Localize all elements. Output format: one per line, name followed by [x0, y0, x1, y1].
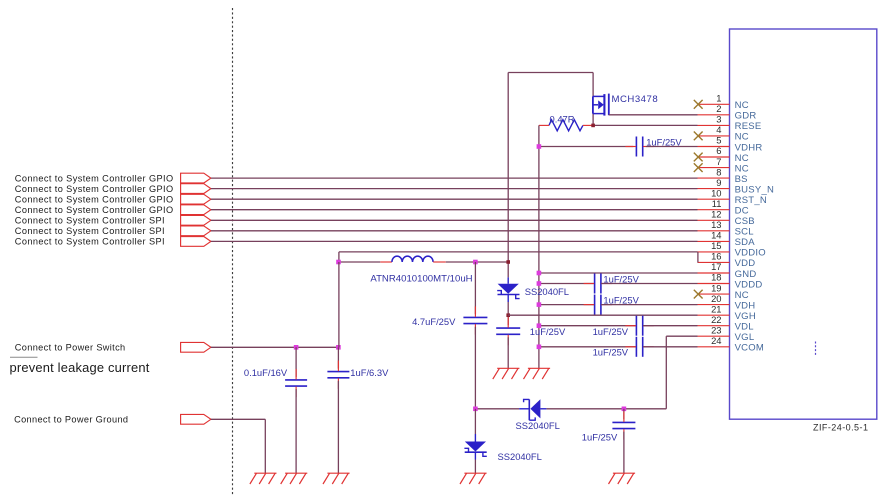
wire power ground — [211, 418, 265, 420]
wire boost node top horizontal — [508, 72, 593, 74]
wire inductor junction down to 4.7uF — [474, 262, 476, 314]
capacitor 0.1uF/16V — [285, 380, 307, 386]
svg-text:SS2040FL: SS2040FL — [498, 451, 542, 462]
junction VDL cap / rail — [537, 323, 542, 328]
svg-text:23: 23 — [711, 324, 721, 335]
wire power ground corner down — [264, 419, 266, 473]
wire bottom cap to ground — [623, 432, 625, 474]
junction 0.1uF tap — [294, 345, 299, 350]
wire VCOM rail to cap — [539, 346, 636, 348]
wire 4.7uF node down to lower diode — [474, 409, 476, 434]
pin 7 (NC) — [698, 156, 749, 175]
pin 3 (RESE) — [698, 114, 762, 133]
svg-text:VCOM: VCOM — [735, 343, 765, 354]
wire VDH rail to cap — [539, 304, 595, 306]
hidden pin marker inside connector — [815, 342, 817, 357]
capacitor 4.7uF/25V — [463, 317, 487, 323]
svg-text:9: 9 — [716, 177, 721, 188]
svg-text:24: 24 — [711, 335, 721, 346]
svg-text:21: 21 — [711, 303, 721, 314]
no-connect X pin 6 — [694, 153, 703, 162]
svg-text:19: 19 — [711, 282, 721, 293]
svg-text:4: 4 — [716, 124, 721, 135]
pin 18 (VDDD) — [698, 272, 763, 291]
svg-text:1uF/25V: 1uF/25V — [646, 136, 682, 147]
page border dashed line — [232, 8, 234, 495]
wire MOSFET source drop — [592, 73, 594, 97]
pin 24 (VCOM) — [698, 335, 765, 354]
svg-text:10: 10 — [711, 187, 721, 198]
svg-text:Connect to System Controller S: Connect to System Controller SPI — [15, 237, 165, 247]
svg-text:SCL: SCL — [735, 227, 754, 238]
pin 11 (DC) — [698, 198, 749, 217]
junction inductor / boost vertical — [506, 260, 510, 264]
svg-text:SDA: SDA — [735, 237, 756, 248]
wire VDHR from rail to cap — [539, 146, 633, 148]
pin 15 (VDDIO) — [698, 240, 766, 259]
junction VDD rail / VDDIO / power switch drop — [336, 260, 341, 265]
svg-text:1uF/25V: 1uF/25V — [582, 431, 618, 442]
svg-text:VDD: VDD — [735, 258, 756, 269]
wire GND rail to pin 17 — [539, 272, 698, 274]
svg-text:7: 7 — [716, 156, 721, 167]
svg-text:8: 8 — [716, 166, 721, 177]
svg-text:1uF/6.3V: 1uF/6.3V — [350, 367, 389, 378]
transistor Q1 MCH3478 (P-MOSFET) — [593, 94, 609, 116]
svg-text:Connect to System Controller G: Connect to System Controller GPIO — [15, 205, 174, 215]
ground (1uF/6.3V) — [323, 473, 350, 484]
wire CSB to pin 12 — [211, 219, 698, 221]
svg-text:1uF/25V: 1uF/25V — [603, 273, 639, 284]
svg-text:3: 3 — [716, 114, 721, 125]
wire VGL row down to bottom cap — [623, 409, 625, 420]
capacitor 1uF/25V (VDHR) — [636, 137, 642, 157]
wire boost diode out / VGH node — [507, 302, 509, 325]
svg-text:ATNR4010100MT/10uH: ATNR4010100MT/10uH — [370, 273, 472, 284]
junction GND wire / rail — [537, 271, 542, 276]
ground (GND rail) — [524, 368, 551, 379]
svg-text:CSB: CSB — [735, 216, 755, 227]
svg-text:2: 2 — [716, 103, 721, 114]
wire lower diode to ground — [474, 460, 476, 474]
wire 0.1uF to ground — [295, 389, 297, 473]
wire diode row left segment — [475, 408, 519, 410]
pin 6 (NC) — [698, 145, 749, 164]
inductor L1 ATNR4010100MT/10uH — [392, 256, 433, 262]
wire VDDIO corner down to VDD rail — [338, 252, 340, 262]
svg-text:NC: NC — [735, 290, 749, 301]
svg-text:VDL: VDL — [735, 322, 754, 333]
svg-text:VGH: VGH — [735, 311, 756, 322]
svg-text:RST_N: RST_N — [735, 195, 767, 206]
junction VCOM cap / rail — [537, 345, 542, 350]
capacitor 1uF/25V (VDH) — [595, 295, 601, 315]
wire 1uF/6.3V to ground — [337, 381, 339, 473]
pin 20 (VDH) — [698, 293, 756, 312]
harness connector (DC) — [181, 205, 211, 215]
diode D1 SS2040FL (boost, pointing down) — [497, 277, 519, 302]
svg-text:BUSY_N: BUSY_N — [735, 184, 775, 195]
svg-text:Connect to System Controller S: Connect to System Controller SPI — [15, 226, 165, 236]
svg-text:Connect to System Controller G: Connect to System Controller GPIO — [15, 173, 174, 183]
svg-text:Connect to System Controller G: Connect to System Controller GPIO — [15, 195, 174, 205]
svg-text:4.7uF/25V: 4.7uF/25V — [412, 316, 456, 327]
pin 21 (VGH) — [698, 303, 756, 322]
svg-text:1uF/25V: 1uF/25V — [593, 347, 629, 358]
svg-text:22: 22 — [711, 314, 721, 325]
wire VDDIO pin 15 long run — [339, 251, 698, 253]
pin 23 (VGL) — [698, 324, 755, 343]
capacitor 1uF/25V (VGL) — [612, 422, 635, 428]
harness connector (CSB) — [181, 215, 211, 225]
wire BUSY_N to pin 9 — [211, 188, 698, 190]
ground (0.1uF) — [281, 473, 308, 484]
svg-text:13: 13 — [711, 219, 721, 230]
svg-text:SS2040FL: SS2040FL — [525, 286, 569, 297]
junction VGH tap — [506, 313, 510, 317]
no-connect X pin 7 — [694, 163, 703, 172]
svg-text:RESE: RESE — [735, 121, 762, 132]
svg-text:1uF/25V: 1uF/25V — [593, 326, 629, 337]
pin 2 (GDR) — [698, 103, 757, 122]
pin 17 (GND) — [698, 261, 757, 280]
wire GND rail vertical — [538, 125, 540, 368]
svg-text:DC: DC — [735, 206, 749, 217]
svg-text:Connect to Power Ground: Connect to Power Ground — [14, 415, 128, 425]
svg-text:GDR: GDR — [735, 111, 757, 122]
harness connector (RST_N) — [181, 194, 211, 204]
capacitor 1uF/25V (boost out) — [496, 328, 520, 334]
wire SDA to pin 14 — [211, 240, 698, 242]
pin 8 (BS) — [698, 166, 748, 185]
svg-text:20: 20 — [711, 293, 721, 304]
pin 4 (NC) — [698, 124, 749, 143]
wire 1uF/6.3V riser — [337, 347, 339, 368]
svg-text:VDDIO: VDDIO — [735, 248, 766, 259]
svg-text:Connect to System Controller S: Connect to System Controller SPI — [15, 216, 165, 226]
svg-text:15: 15 — [711, 240, 721, 251]
harness connector (BS) — [181, 173, 211, 183]
svg-text:prevent leakage current: prevent leakage current — [10, 360, 150, 375]
pin 16 (VDD) — [698, 251, 756, 270]
svg-text:Connect to Power Switch: Connect to Power Switch — [15, 343, 126, 353]
junction VDH cap / rail — [537, 302, 542, 307]
harness connector (BUSY_N) — [181, 184, 211, 194]
pin 5 (VDHR) — [698, 135, 763, 154]
pin 13 (SCL) — [698, 219, 754, 238]
junction VGL row / 4.7uF / lower diode — [473, 407, 478, 412]
wire VGL pin 23 to corner — [666, 335, 697, 337]
pin 12 (CSB) — [698, 209, 755, 228]
svg-text:0.1uF/16V: 0.1uF/16V — [244, 367, 288, 378]
wire GDR: MOSFET gate to pin 2 — [609, 114, 698, 116]
wire VDD row: junction to inductor — [339, 261, 381, 263]
svg-text:BS: BS — [735, 174, 748, 185]
wire 4.7uF to VGL/diode row — [474, 327, 476, 409]
capacitor 1uF/25V (VDL) — [636, 316, 642, 336]
pin 22 (VDL) — [698, 314, 754, 333]
ground (boost cap) — [493, 368, 520, 379]
svg-text:6: 6 — [716, 145, 721, 156]
wire DC to pin 11 — [211, 209, 698, 211]
capacitor 1uF/6.3V — [327, 372, 349, 378]
svg-text:NC: NC — [735, 153, 749, 164]
pin 19 (NC) — [698, 282, 749, 301]
harness connector (power ground) — [181, 414, 211, 424]
svg-text:1uF/25V: 1uF/25V — [530, 326, 566, 337]
resistor 0.47R — [549, 120, 583, 131]
svg-text:12: 12 — [711, 209, 721, 220]
capacitor 1uF/25V (VCOM) — [636, 337, 642, 357]
svg-text:16: 16 — [711, 251, 721, 262]
svg-text:18: 18 — [711, 272, 721, 283]
svg-text:Connect to System Controller G: Connect to System Controller GPIO — [15, 184, 174, 194]
wire diode row right segment — [546, 408, 666, 410]
harness connector (SDA) — [181, 237, 211, 247]
svg-text:NC: NC — [735, 100, 749, 111]
wire SCL to pin 13 — [211, 230, 698, 232]
svg-text:VGL: VGL — [735, 332, 755, 343]
svg-text:14: 14 — [711, 230, 721, 241]
svg-text:GND: GND — [735, 269, 757, 280]
svg-text:5: 5 — [716, 135, 721, 146]
connector U2 ZIF-24-0.5-1 body — [730, 29, 877, 419]
ground (VGL cap) — [609, 473, 636, 484]
svg-text:SS2040FL: SS2040FL — [516, 420, 560, 431]
wire RESE to pin 3 — [593, 124, 697, 126]
svg-text:NC: NC — [735, 163, 749, 174]
ground (lower diode) — [460, 473, 487, 484]
wire boost node vertical (inductor/diode/MOSFET source) — [507, 73, 509, 278]
wire VDDD cap to pin 18 — [601, 283, 698, 285]
junction inductor out / 4.7uF — [473, 260, 478, 265]
wire 0.1uF riser — [295, 347, 297, 377]
wire VDH cap to pin 20 — [601, 304, 698, 306]
wire VDD pin 16 riser to VDDIO — [697, 252, 699, 263]
wire power switch to VDD drop — [211, 346, 339, 348]
wire VDL rail to cap — [539, 325, 636, 327]
no-connect X pin 1 — [694, 100, 703, 109]
svg-text:1: 1 — [716, 93, 721, 104]
junction RESE/MOSFET drain — [591, 124, 595, 128]
junction VDHR cap / GND rail — [537, 144, 542, 149]
junction VDDD cap / rail — [537, 281, 542, 286]
wire VDHR cap to pin 5 — [646, 146, 698, 148]
pin 1 (NC) — [698, 93, 749, 112]
wire VDL cap to pin 22 — [643, 325, 698, 327]
wire VDDD rail to cap — [539, 283, 595, 285]
ground (power ground) — [250, 473, 277, 484]
wire VGH boost node to pin 21 — [508, 314, 697, 316]
svg-text:11: 11 — [712, 198, 722, 209]
wire BS to pin 8 — [211, 177, 698, 179]
junction VGL row / 1uF cap — [622, 407, 627, 412]
svg-text:VDH: VDH — [735, 300, 756, 311]
wire MOSFET drain to RESE junction — [592, 114, 594, 126]
pin 9 (BUSY_N) — [698, 177, 775, 196]
svg-text:NC: NC — [735, 132, 749, 143]
wire VDD drop (inductor junction to power switch row) — [338, 262, 340, 347]
wire RST_N to pin 10 — [211, 198, 698, 200]
text field underline — [10, 356, 38, 358]
wire inductor to boost node — [446, 261, 508, 263]
harness connector (SCL) — [181, 226, 211, 236]
svg-text:VDHR: VDHR — [735, 142, 763, 153]
harness connector (power switch) — [181, 342, 211, 352]
diode D2 SS2040FL (horizontal, pointing left) — [519, 399, 546, 420]
wire VGL corner down to diode row — [665, 336, 667, 409]
no-connect X pin 19 — [694, 290, 703, 299]
pin 10 (RST_N) — [698, 187, 768, 206]
wire boost cap to ground — [507, 337, 509, 368]
svg-text:ZIF-24-0.5-1: ZIF-24-0.5-1 — [813, 422, 868, 432]
pin 14 (SDA) — [698, 230, 756, 249]
svg-text:0.47R: 0.47R — [550, 114, 575, 125]
capacitor 1uF/25V (VDDD) — [595, 274, 601, 294]
svg-text:VDDD: VDDD — [735, 279, 763, 290]
svg-text:1uF/25V: 1uF/25V — [603, 295, 639, 306]
junction 1uF/6.3V tap / VDD drop — [336, 345, 341, 350]
wire VCOM cap to pin 24 — [643, 346, 698, 348]
diode D3 SS2040FL (lower, pointing down) — [464, 434, 486, 460]
svg-text:MCH3478: MCH3478 — [612, 94, 659, 105]
no-connect X pin 4 — [694, 132, 703, 141]
svg-text:17: 17 — [711, 261, 721, 272]
